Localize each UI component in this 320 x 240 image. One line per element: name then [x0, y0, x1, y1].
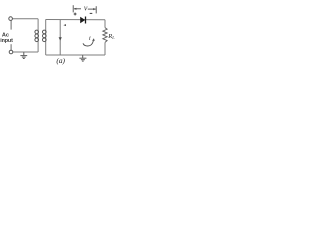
svg-text:RL: RL — [107, 33, 115, 40]
svg-text:(a): (a) — [56, 56, 65, 65]
svg-text:v: v — [84, 3, 88, 12]
svg-text:input: input — [0, 38, 13, 44]
svg-text:i: i — [89, 35, 91, 42]
